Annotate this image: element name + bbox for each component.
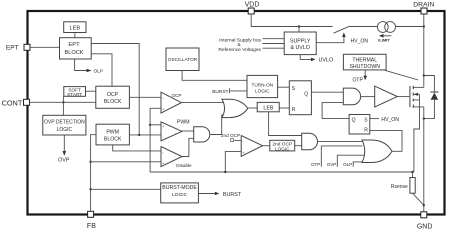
arrow UVLO [311,58,316,62]
node drain-csource junction [423,25,425,27]
wire sense bus to 2nd OCP [225,151,241,172]
wire FF2 R from OR2 [370,130,402,151]
wire LEB to FF1 R [279,107,289,109]
svg-text:2nd OCP: 2nd OCP [221,133,240,138]
svg-text:& UVLO: & UVLO [290,45,309,51]
wire AND1 out to OR1 [210,115,223,135]
box LEB (mid) [257,102,279,111]
svg-text:OCP: OCP [107,92,119,98]
wire sense bus horizontal [150,171,414,173]
wire OVP detection down arrow [63,135,65,152]
op-amp buffer [375,86,398,107]
svg-text:BURST: BURST [212,89,228,95]
svg-text:BLOCK: BLOCK [104,99,122,105]
comparator PWM [161,119,190,141]
node FB-disable junction [89,161,91,163]
svg-text:HV_ON: HV_ON [381,117,399,123]
box 2nd OCP LOGIC [270,140,295,151]
svg-text:TURN-ON: TURN-ON [251,82,273,87]
svg-text:R: R [292,107,296,113]
node FB-burst junction [89,188,91,190]
svg-text:ILIMIT: ILIMIT [378,38,390,43]
pin VDD [245,1,260,14]
box THERMAL SHUTDOWN [343,54,386,70]
svg-text:UVLO: UVLO [319,58,334,64]
wire SOFT START to OCP block [86,90,96,92]
wire thermal sense diagonal [385,70,418,80]
box PWM BLOCK [96,124,129,145]
wire buffer to gate [397,96,409,98]
switch HV blade [334,27,349,34]
svg-text:SHUTDOWN: SHUTDOWN [349,64,380,70]
wire LEB bottom to AND3 [269,112,302,136]
pin FB [87,211,96,230]
svg-text:OVP DETECTION: OVP DETECTION [44,119,85,125]
wire VDD down to supply box [298,27,300,33]
svg-text:DRAIN: DRAIN [413,1,434,8]
arrow BURST [215,192,220,196]
node VDD-supply junction [298,25,300,27]
svg-text:OSCILLATOR: OSCILLATOR [168,57,198,62]
wire LEB to EPT block [74,33,76,38]
wire sense to PWM comparator [150,124,161,126]
node sense-rsense junction [411,171,413,173]
svg-text:Rsense: Rsense [391,184,408,190]
svg-text:LEB: LEB [70,25,81,31]
box OCP BLOCK [96,86,130,108]
wire MOSFET source tap [413,106,424,108]
svg-text:LOGIC: LOGIC [57,127,73,133]
svg-text:GND: GND [417,224,433,231]
svg-text:OTP: OTP [311,162,320,167]
wire FB bus [91,135,96,212]
arrow HV_ON [342,32,346,37]
svg-text:OLP: OLP [343,162,352,167]
wire FF1 Q to AND2 [311,91,343,93]
svg-text:CONT: CONT [2,98,23,107]
label OTP input [311,146,362,167]
node PWM bus junction [138,134,140,136]
svg-text:EPT: EPT [6,44,19,51]
label OLP input [343,162,368,167]
node drain-diode junction [423,74,425,76]
svg-text:Disable: Disable [176,163,192,168]
pin GND [417,212,433,231]
flip-flop FF2 [349,115,370,135]
wire OCP block output [129,96,161,98]
wire FF2 Q to AND2 [322,103,349,119]
wire MOSFET body taps [414,94,420,100]
box SOFT START [64,87,86,97]
wire OTP down arrow [364,70,366,76]
svg-text:BLOCK: BLOCK [104,137,122,143]
supply rail texts [218,38,261,53]
svg-text:Q: Q [304,92,308,98]
wire switch to current source [348,26,377,28]
gate OR1 [222,99,248,117]
node sense-PWM junction [149,124,151,126]
wire OR1 out to LEB [248,107,257,109]
wire sense line down [414,94,420,172]
wire burst-mode out [198,193,214,195]
box SUPPLY & UVLO [284,32,316,55]
pin DRAIN [413,1,434,14]
box OVP DETECTION LOGIC [43,115,86,135]
label D sense [231,139,242,142]
wire rsense to gnd [413,193,424,205]
arrow Ilimit [379,34,392,38]
wire AND2 to buffer [361,96,375,98]
svg-text:LOGIC: LOGIC [275,146,290,151]
arrow OLP [87,69,92,73]
svg-text:OTP: OTP [353,78,364,84]
svg-text:PWM: PWM [106,130,119,136]
node source-diode junction [423,117,425,119]
wire PWM block bottom to Disable [113,145,161,151]
arrow OTP [363,76,367,81]
svg-text:OCP: OCP [172,93,182,98]
comparator 2nd OCP [241,136,262,157]
svg-text:OVP: OVP [58,157,70,163]
node sense-2ndocp junction [224,171,226,173]
wire VDD net [251,14,332,27]
wire FF2 S to HV_ON label [370,118,379,120]
svg-text:OLP: OLP [94,69,104,75]
wire EPT block bottom to OLP label [75,59,87,71]
wire Disable output to AND1 [182,138,194,156]
svg-text:PWM: PWM [177,119,190,125]
transistor MOSFET channel segments [412,86,414,108]
wire current source to drain line [396,26,424,28]
wire logic to AND3 [295,145,302,147]
box OSCILLATOR [166,48,199,71]
svg-text:VDD: VDD [245,1,260,8]
transistor MOSFET gate bar [409,86,411,107]
wire OCP comp output to OR1 [181,102,226,104]
wire UVLO out [300,55,311,60]
box BURST-MODE LOGIC [161,183,199,203]
wire SOFT START down to OVP detection [62,96,64,115]
wire HV_ON control arrow [316,36,344,43]
wire GND vertical [423,107,425,212]
svg-text:BURST: BURST [223,192,242,198]
node CONT junction [62,101,64,103]
svg-text:BLOCK: BLOCK [65,50,84,56]
svg-text:FB: FB [87,223,96,230]
wire EPT block out2 to OCP block top [91,54,112,86]
wire 2nd OCP to logic [263,145,270,147]
svg-text:THERMAL: THERMAL [352,57,377,63]
gate OR2 [362,140,392,163]
gate AND3 [302,133,318,150]
svg-text:R: R [364,128,368,134]
svg-text:Q: Q [352,117,356,123]
comparator OCP [161,92,181,113]
comparator Disable [161,147,192,168]
wire PWM comp output to AND1 [182,130,194,132]
wire turn-on to FF1 S [278,86,290,88]
svg-text:LOGIC: LOGIC [172,192,188,198]
flip-flop FF1 [289,81,311,115]
box LEB (top) [64,22,86,33]
wire supply inputs [263,39,285,49]
gate AND1 [194,127,210,142]
wire MOSFET drain tap [413,86,424,88]
wire FB to burst-mode logic [91,188,161,190]
current source I-limit [377,22,395,33]
arrow OVP [63,151,67,156]
svg-text:Reference Voltages: Reference Voltages [218,47,261,53]
svg-text:OVP: OVP [327,162,337,167]
gate AND2 [343,88,360,105]
IC outline box [28,11,445,215]
wire FB to Disable [91,161,161,163]
svg-text:SUPPLY: SUPPLY [290,39,311,45]
pin CONT [2,98,30,107]
svg-text:LOGIC: LOGIC [255,89,270,94]
node gnd junction [423,204,425,206]
wire OSC to turn-on logic [182,71,247,81]
wire CONT pin to OCP block [30,101,96,103]
svg-text:EPT: EPT [68,42,80,48]
svg-text:HV_ON: HV_ON [351,39,369,45]
svg-text:BURST-MODE: BURST-MODE [162,185,197,191]
arrow MOSFET body [414,93,418,96]
box EPT BLOCK [60,38,92,59]
svg-text:START: START [67,92,82,97]
wire EPT pin to EPT block [30,46,60,48]
diode body [424,76,439,119]
wire BURST to turn-on logic [230,88,248,93]
resistor Rsense [391,172,415,193]
svg-text:LEB: LEB [263,105,273,111]
wire PWM block output [129,134,161,136]
wire AND3 out to OR2 [317,140,364,142]
wire sense bus vertical [150,108,161,172]
wire EPT block out1 to PWM bus [91,44,139,135]
wire DRAIN pin down [423,14,425,87]
pin EPT [6,44,30,51]
box TURN-ON LOGIC [247,75,278,97]
label OVP input [327,155,365,167]
